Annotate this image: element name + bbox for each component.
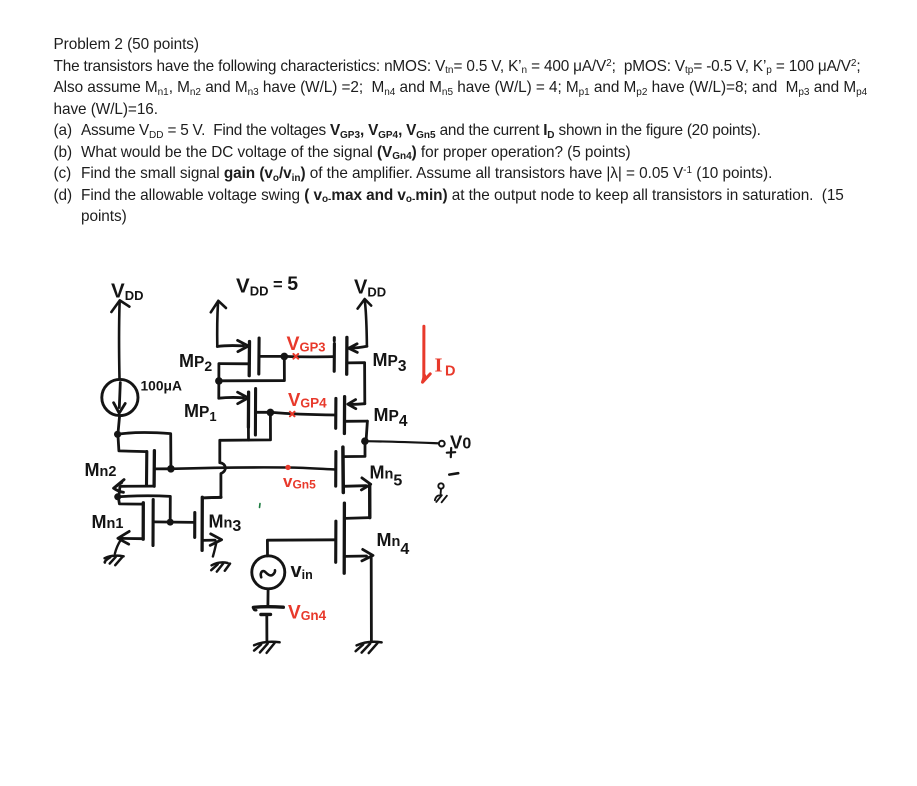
- transistor Mn3: [195, 497, 222, 556]
- label Mn3: [209, 512, 242, 536]
- wire VGP3 net (Mp2 gate to Mp3 gate): [286, 355, 334, 358]
- label VGP3 (red): [287, 333, 326, 355]
- wire Mp1 drain down to Mn3 drain (with hop): [220, 440, 226, 497]
- value label 100uA: [141, 379, 182, 394]
- current source I1 100uA: [102, 379, 138, 415]
- label vin: [291, 560, 313, 582]
- power VDD left arrow: [111, 300, 129, 379]
- svg-text:MP3: MP3: [373, 350, 407, 375]
- transistor Mn5: [336, 444, 371, 518]
- wire Mn5 source to Mn4 drain: [345, 516, 370, 520]
- svg-text:Mn3: Mn3: [209, 512, 242, 536]
- label Mn2: [85, 460, 117, 480]
- label Mp3: [373, 350, 407, 375]
- terminal circle Vo-: [438, 483, 443, 488]
- label Mp2: [179, 351, 212, 374]
- ground under Mn4: [356, 642, 382, 653]
- label Mp1: [184, 401, 217, 424]
- wire Mn3 drain lead: [202, 496, 221, 499]
- svg-text:Mn5: Mn5: [370, 463, 403, 490]
- wire Mn2 source node to Mn3 gate junction: [118, 496, 171, 520]
- annotation red x on VGP4: [290, 412, 295, 417]
- label minus sign: [449, 473, 458, 474]
- junction dot output node: [361, 437, 369, 445]
- junction dot Mn1/Mn3 gate node: [167, 519, 174, 526]
- svg-text:VGP4: VGP4: [288, 389, 327, 411]
- annotation red dot VGn5: [285, 465, 290, 470]
- svg-text:vGn5: vGn5: [283, 472, 316, 492]
- svg-text:VDD: VDD: [354, 277, 386, 300]
- wire VGP4 net (Mp1 gate to Mp4 gate): [272, 412, 336, 415]
- label V0: [450, 432, 471, 453]
- svg-text:MP1: MP1: [184, 401, 217, 424]
- wire long net Mn2 drain to Mn5 gate: [171, 467, 335, 469]
- junction dot Mp1 gate: [267, 409, 275, 417]
- terminal circle Vo+: [439, 441, 445, 447]
- svg-text:MP2: MP2: [179, 351, 212, 374]
- label VGn4 (red): [288, 603, 327, 624]
- svg-text:MP4: MP4: [374, 405, 408, 430]
- label VGP4 (red): [288, 389, 327, 411]
- svg-text:D: D: [445, 364, 455, 380]
- terminal squiggle Vo-: [435, 489, 447, 503]
- battery VGn4 (DC source): [253, 607, 283, 615]
- wire Mn1 drain lead: [119, 498, 144, 504]
- transistor Mn2: [114, 451, 171, 495]
- svg-text:VGP3: VGP3: [287, 333, 326, 355]
- power VDD right label: [354, 277, 386, 300]
- junction dot Mn2 source node: [114, 493, 121, 500]
- junction dot Mp2 drain rail: [215, 377, 223, 385]
- wire node A to Mn2 drain junction: [118, 432, 171, 466]
- transistor Mp4: [336, 397, 368, 439]
- junction dot Mn2 drain: [167, 465, 175, 473]
- power VDD=5 label (middle): [236, 273, 298, 299]
- ground under battery: [254, 642, 280, 653]
- svg-text:100μA: 100μA: [141, 379, 182, 394]
- transistor Mn1: [115, 500, 153, 554]
- annotation red x on VGP3: [293, 354, 298, 359]
- svg-text:vin: vin: [291, 560, 313, 582]
- wire gate bus Mn1 to Mn3: [154, 521, 194, 524]
- wire node A to Mn2 gate: [118, 436, 147, 452]
- ground under Mn1: [105, 556, 124, 566]
- label Mn5: [370, 463, 403, 490]
- node A junction dot: [114, 431, 121, 438]
- transistor Mn4: [336, 503, 373, 640]
- transistor Mp2: [217, 338, 284, 398]
- wire vin to battery: [266, 589, 269, 605]
- label plus sign: [447, 448, 455, 457]
- transistor Mp1: [219, 389, 271, 441]
- svg-text:VDD: VDD: [111, 280, 143, 304]
- svg-text:V0: V0: [450, 432, 471, 453]
- label Mn4: [377, 530, 410, 558]
- svg-text:I: I: [435, 355, 443, 377]
- svg-text:Mn4: Mn4: [377, 530, 410, 558]
- svg-text:Mn2: Mn2: [85, 460, 117, 480]
- ground under Mn3: [211, 562, 230, 571]
- transistor Mp3: [334, 337, 367, 403]
- source vin (sine source): [252, 556, 285, 589]
- power VDD middle arrow: [211, 301, 226, 347]
- svg-text:Mn1: Mn1: [92, 512, 124, 532]
- wire output node to Vo terminal: [365, 441, 439, 443]
- stray green speck: [259, 504, 262, 508]
- current arrow ID (red): [423, 326, 431, 382]
- label VGn5 (red): [283, 472, 316, 492]
- junction dot Mp2 gate: [281, 353, 289, 361]
- svg-text:VDD = 5: VDD = 5: [236, 273, 298, 299]
- svg-text:VGn4: VGn4: [288, 603, 327, 624]
- label Mp4: [374, 405, 408, 430]
- wire current source to node A: [118, 416, 119, 431]
- wire Mn4 gate to vin: [267, 540, 335, 556]
- label ID (red): [435, 355, 456, 380]
- label Mn1: [92, 512, 124, 532]
- power VDD left label: [111, 280, 143, 304]
- wire battery to ground: [265, 616, 268, 641]
- power VDD right arrow: [358, 299, 372, 346]
